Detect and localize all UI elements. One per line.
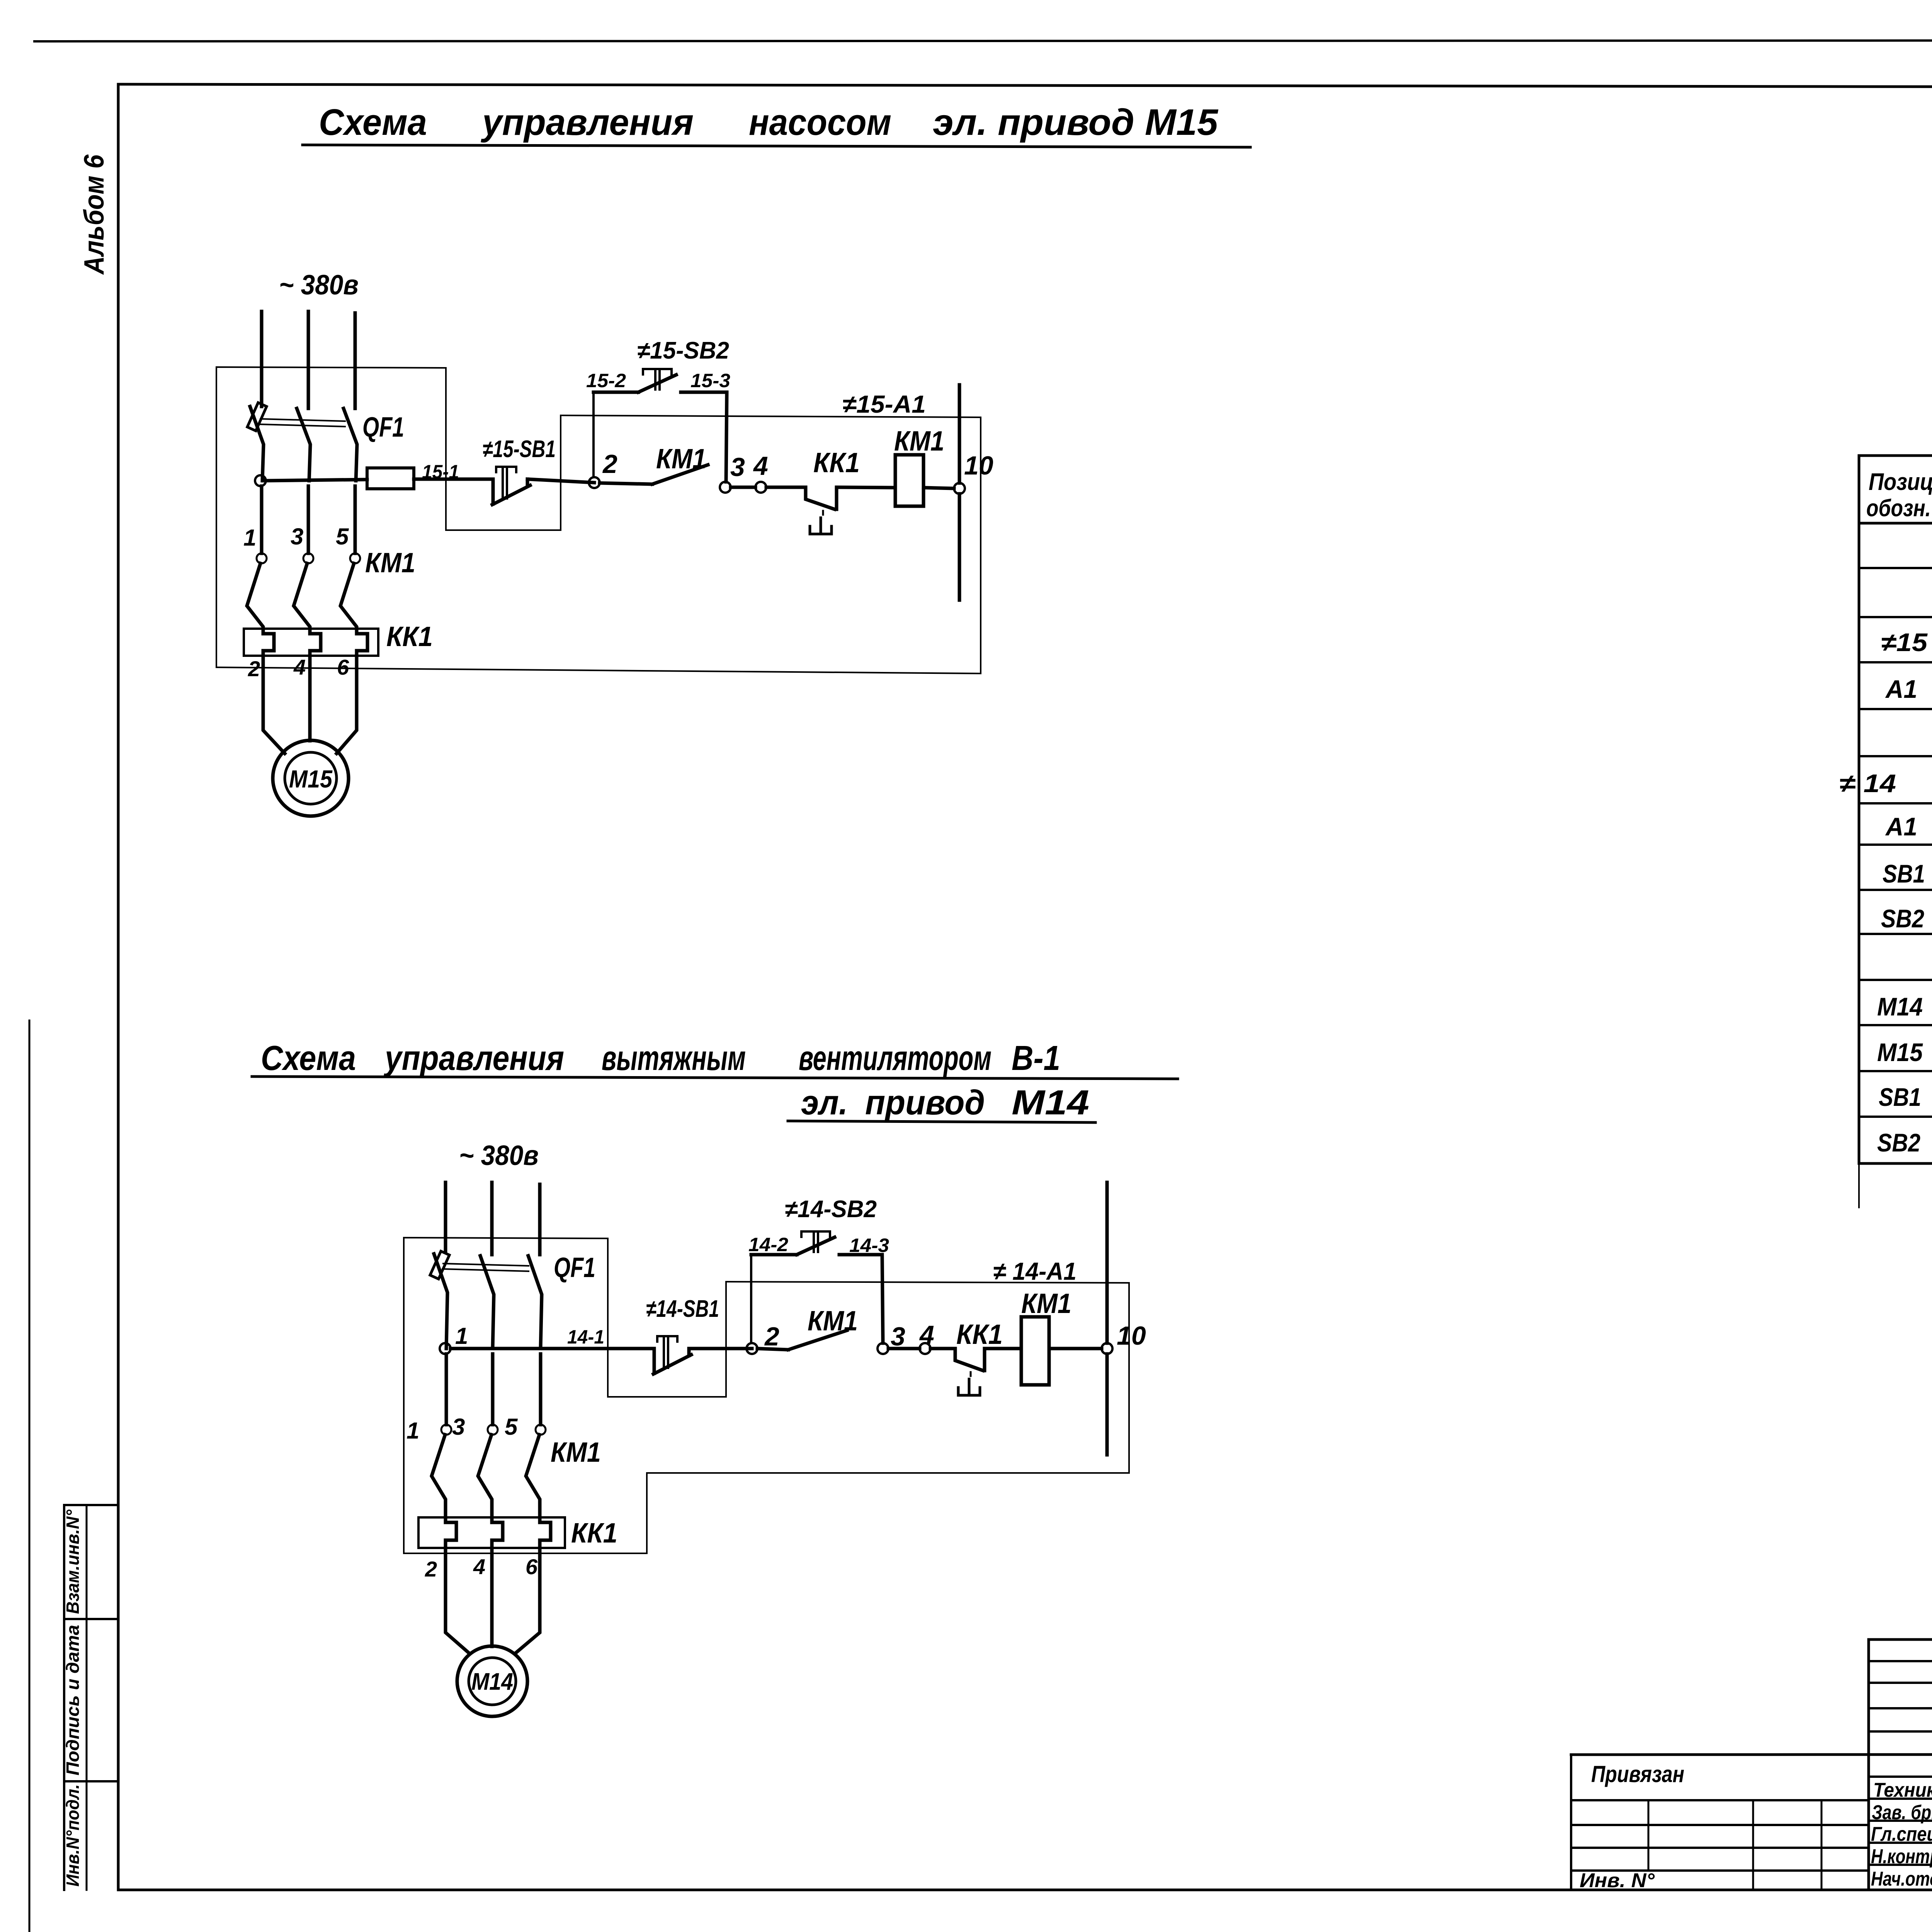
panel 2 boundary <box>404 1238 726 1553</box>
svg-text:6: 6 <box>526 1554 538 1579</box>
wire node4 to KK1 (M14) <box>930 1347 955 1350</box>
row SB2 button KE-011 <box>1881 893 1932 942</box>
svg-text:SВ1: SВ1 <box>1883 859 1925 888</box>
node 1 junction <box>255 475 266 486</box>
svg-text:2: 2 <box>248 656 260 681</box>
svg-text:Позиц.: Позиц. <box>1869 469 1932 495</box>
svg-text:КМ1: КМ1 <box>365 548 415 578</box>
svg-text:Инв. N°: Инв. N° <box>1580 1869 1655 1892</box>
wire coil to node 10 (M14) <box>1049 1347 1102 1350</box>
svg-text:управления: управления <box>481 102 694 143</box>
svg-text:5: 5 <box>505 1414 518 1440</box>
wire fuse to SB1 <box>414 478 493 481</box>
wire phase A (M14) <box>444 1182 447 1252</box>
wire branch 14-3 to node 3 (M14) <box>839 1255 883 1343</box>
svg-text:1: 1 <box>406 1418 419 1444</box>
row A1 block B5130-2474 <box>1885 809 1932 843</box>
svg-text:КМ1: КМ1 <box>656 444 706 474</box>
svg-text:3: 3 <box>730 452 745 482</box>
wire coil to node 10 <box>923 488 954 488</box>
contactor KM1 main contacts (M14) <box>406 1354 601 1517</box>
svg-text:SВ2: SВ2 <box>1881 904 1924 933</box>
node 10 junction (M14) <box>1102 1343 1112 1354</box>
wire phase C (M14) <box>538 1184 542 1255</box>
row SB2 local button <box>1877 1116 1932 1165</box>
svg-text:≠ 14: ≠ 14 <box>1839 769 1896 798</box>
wire bus 10 (M14) <box>1105 1182 1109 1343</box>
node 3 junction (M14) <box>878 1343 888 1354</box>
svg-text:2: 2 <box>764 1322 779 1351</box>
wire KK1 to motor c <box>337 656 357 753</box>
wire SB1 to node 2 <box>527 479 594 483</box>
wire phase B <box>307 311 310 408</box>
svg-text:вытяжным: вытяжным <box>602 1039 746 1078</box>
svg-text:А1: А1 <box>1885 675 1917 703</box>
wire node2 up to branch <box>592 392 595 477</box>
svg-text:2: 2 <box>602 449 617 479</box>
svg-text:М14: М14 <box>471 1668 513 1695</box>
svg-text:4: 4 <box>753 451 768 481</box>
motor M14 <box>457 1646 527 1716</box>
contact KM1 auxiliary <box>652 465 708 484</box>
svg-text:1: 1 <box>455 1323 468 1349</box>
svg-text:14-1: 14-1 <box>567 1326 604 1348</box>
svg-text:Альбом 6: Альбом 6 <box>79 154 110 275</box>
row M14 motor <box>1877 984 1932 1037</box>
wire control bus 14-1 <box>451 1347 654 1350</box>
svg-text:~ 380в: ~ 380в <box>279 270 359 301</box>
svg-text:М14: М14 <box>1012 1083 1089 1122</box>
svg-text:≠14-SB2: ≠14-SB2 <box>785 1196 877 1223</box>
wire node4 to KK1 <box>766 486 806 489</box>
motor M15 <box>273 740 349 816</box>
svg-text:привод: привод <box>865 1083 985 1122</box>
equipment table grid <box>1859 456 1932 1213</box>
block A1 boundary (M14) <box>404 1282 1129 1553</box>
thermal relay KK1 heaters (M14) <box>418 1517 617 1581</box>
circuit breaker QF1 (M14) <box>430 1251 595 1349</box>
svg-text:2: 2 <box>425 1557 437 1581</box>
svg-text:4: 4 <box>919 1320 934 1350</box>
svg-text:QF1: QF1 <box>362 412 404 443</box>
wire KK1 to motor a <box>263 656 285 753</box>
title block grid <box>1571 1639 1932 1890</box>
svg-text:~ 380в: ~ 380в <box>459 1140 539 1171</box>
svg-text:1: 1 <box>243 525 256 551</box>
thermal relay KK1 heaters <box>244 621 433 681</box>
wire SB1 to node 2 (M14) <box>689 1347 752 1350</box>
wire KK1 to motor c (M14) <box>515 1548 540 1654</box>
svg-text:4: 4 <box>293 655 306 679</box>
svg-text:М15: М15 <box>289 765 333 793</box>
svg-text:М14: М14 <box>1877 992 1923 1021</box>
svg-text:15-2: 15-2 <box>586 370 626 391</box>
row 14 elements M14 <box>1839 767 1932 801</box>
svg-text:управления: управления <box>384 1039 564 1078</box>
wire branch 15-3 to node 3 <box>681 392 727 482</box>
svg-text:КМ1: КМ1 <box>808 1306 858 1337</box>
svg-text:≠15-SB2: ≠15-SB2 <box>637 337 729 364</box>
pushbutton 14-SB2 NO start <box>785 1196 877 1255</box>
svg-text:≠15: ≠15 <box>1881 628 1928 656</box>
node 10 junction <box>954 483 965 494</box>
svg-text:Зав. бр.: Зав. бр. <box>1872 1801 1932 1824</box>
circuit breaker QF1 <box>247 403 404 481</box>
svg-text:КМ1: КМ1 <box>551 1437 601 1468</box>
table header <box>1866 469 1932 522</box>
coil KM1 (M14) <box>1021 1317 1049 1385</box>
svg-text:Гл.спец.: Гл.спец. <box>1871 1823 1932 1845</box>
contactor KM1 main contacts <box>243 486 415 629</box>
panel 1 boundary <box>216 367 561 667</box>
attachment box Privyazan <box>1571 1755 1869 1892</box>
fuse <box>367 468 414 489</box>
wire bus to fuse <box>266 480 367 481</box>
svg-text:эл.: эл. <box>801 1083 848 1122</box>
svg-text:Нач.отд.: Нач.отд. <box>1871 1868 1932 1890</box>
node 4 junction <box>755 482 766 493</box>
wire branch 15-2 <box>594 391 638 394</box>
node 2 junction (M14) <box>747 1343 757 1354</box>
svg-text:А1: А1 <box>1885 812 1917 841</box>
pushbutton 15-SB2 NO start <box>637 337 729 392</box>
svg-text:Привязан: Привязан <box>1591 1761 1684 1787</box>
svg-text:КМ1: КМ1 <box>894 426 944 457</box>
svg-text:КК1: КК1 <box>813 447 860 478</box>
contact KK1 thermal NC (M14) <box>955 1319 1003 1395</box>
wire KK1 to coil (M14) <box>985 1347 1021 1350</box>
svg-text:14-2: 14-2 <box>748 1234 788 1255</box>
svg-text:КМ1: КМ1 <box>1021 1288 1071 1319</box>
row M15 motor <box>1877 1029 1932 1082</box>
svg-text:5: 5 <box>336 524 349 549</box>
row SB1 local button <box>1879 1071 1932 1120</box>
wire KK1 to motor a (M14) <box>446 1548 470 1654</box>
svg-text:эл. привод М15: эл. привод М15 <box>933 102 1219 143</box>
title scheme M14 fan <box>252 1039 1178 1122</box>
svg-text:4: 4 <box>473 1554 485 1579</box>
wire phase A <box>260 311 264 406</box>
wire node2 to KM1 aux <box>600 483 652 484</box>
wire KK1 to motor b <box>308 656 312 741</box>
wire phase C <box>354 313 357 408</box>
wire KK1 to motor b (M14) <box>490 1548 494 1646</box>
svg-text:≠ 14-А1: ≠ 14-А1 <box>993 1257 1077 1285</box>
signature name rows <box>1871 1779 1932 1890</box>
svg-text:SВ2: SВ2 <box>1877 1128 1920 1157</box>
svg-text:Подпись и дата: Подпись и дата <box>63 1625 83 1776</box>
row SB1 button KE-011 <box>1883 849 1932 898</box>
svg-text:10: 10 <box>1117 1321 1146 1350</box>
row 15 elements M15 <box>1881 627 1932 659</box>
wire node3 to node4 (M14) <box>888 1347 920 1350</box>
svg-text:Техник: Техник <box>1873 1779 1932 1801</box>
svg-text:вентилятором: вентилятором <box>799 1039 992 1078</box>
wire branch 14-2 <box>751 1253 797 1257</box>
svg-text:КК1: КК1 <box>956 1319 1003 1350</box>
contact KK1 thermal NC <box>806 447 860 534</box>
svg-text:В-1: В-1 <box>1012 1039 1060 1078</box>
svg-text:Схема: Схема <box>261 1039 356 1078</box>
svg-text:КК1: КК1 <box>571 1518 617 1549</box>
block A1 boundary <box>216 415 981 673</box>
svg-text:обозн.: обозн. <box>1866 495 1931 522</box>
svg-text:М15: М15 <box>1877 1038 1923 1066</box>
node 4 junction (M14) <box>920 1343 930 1354</box>
wire node2 up to branch (M14) <box>750 1255 752 1343</box>
wire KK1 to coil <box>837 487 895 488</box>
svg-text:3: 3 <box>291 524 303 549</box>
title scheme M15 <box>303 102 1250 147</box>
svg-text:15-3: 15-3 <box>690 370 730 391</box>
pushbutton 15-SB1 NC stop <box>483 436 556 505</box>
contact KM1 auxiliary (M14) <box>788 1330 847 1350</box>
coil KM1 <box>895 455 923 506</box>
svg-text:≠15-А1: ≠15-А1 <box>842 390 926 418</box>
wire node2 to KM1 aux (M14) <box>757 1349 788 1350</box>
svg-text:3: 3 <box>452 1414 465 1440</box>
wire node3 to node4 <box>731 486 755 489</box>
node 1 junction (M14) <box>440 1343 451 1354</box>
svg-text:Взам.инв.N°: Взам.инв.N° <box>63 1509 83 1614</box>
node 2 junction <box>589 477 600 488</box>
svg-text:Схема: Схема <box>319 102 427 143</box>
side stamp grid <box>64 1505 118 1890</box>
node 3 junction <box>720 482 731 493</box>
svg-text:насосом: насосом <box>749 102 891 143</box>
wire bus 10 <box>958 385 961 483</box>
svg-text:QF1: QF1 <box>554 1252 595 1283</box>
svg-text:Н.контр.: Н.контр. <box>1871 1845 1932 1868</box>
wire phase B (M14) <box>490 1182 494 1255</box>
pushbutton 14-SB1 NC stop <box>646 1296 719 1374</box>
svg-text:≠15-SB1: ≠15-SB1 <box>483 436 556 463</box>
svg-text:SВ1: SВ1 <box>1879 1083 1921 1111</box>
svg-text:Инв.N°подл.: Инв.N°подл. <box>63 1784 83 1887</box>
svg-text:10: 10 <box>964 451 993 480</box>
row A1 block B5130-3474 <box>1885 674 1932 706</box>
svg-text:≠14-SB1: ≠14-SB1 <box>646 1296 719 1322</box>
svg-text:КК1: КК1 <box>386 621 433 652</box>
svg-text:6: 6 <box>337 655 349 679</box>
